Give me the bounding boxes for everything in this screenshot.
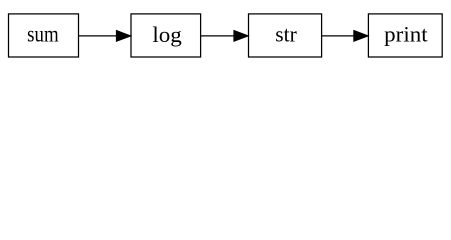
svg-text:log: log [152,22,182,47]
node sum [9,14,79,57]
node print [368,14,442,57]
svg-text:sum: sum [27,22,59,48]
wire edge log-to-str [201,35,236,37]
arrowhead edge log-to-str [234,31,248,42]
node str [249,14,322,57]
arrowhead edge str-to-print [354,31,368,42]
wire edge sum-to-log [79,35,119,37]
node log [131,14,201,57]
svg-text:str: str [275,22,297,47]
svg-text:print: print [384,22,428,47]
arrowhead edge sum-to-log [116,31,130,42]
wire edge str-to-print [322,35,356,37]
